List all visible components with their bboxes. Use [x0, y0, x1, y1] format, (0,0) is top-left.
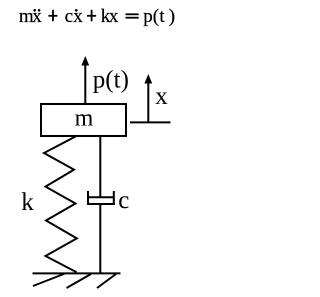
svg-text:m: m	[75, 105, 94, 131]
svg-text:p: p	[143, 6, 153, 27]
svg-text:c: c	[118, 187, 129, 214]
svg-text:t: t	[159, 6, 165, 27]
svg-text:(: (	[153, 6, 159, 27]
svg-text:x: x	[109, 6, 119, 27]
svg-text:k: k	[21, 189, 34, 216]
svg-text:c: c	[65, 6, 73, 27]
svg-text:p(t): p(t)	[93, 67, 129, 94]
svg-text:x: x	[73, 6, 83, 27]
svg-text:x: x	[155, 83, 168, 110]
svg-text:x: x	[32, 6, 42, 27]
svg-text:): )	[169, 6, 175, 27]
